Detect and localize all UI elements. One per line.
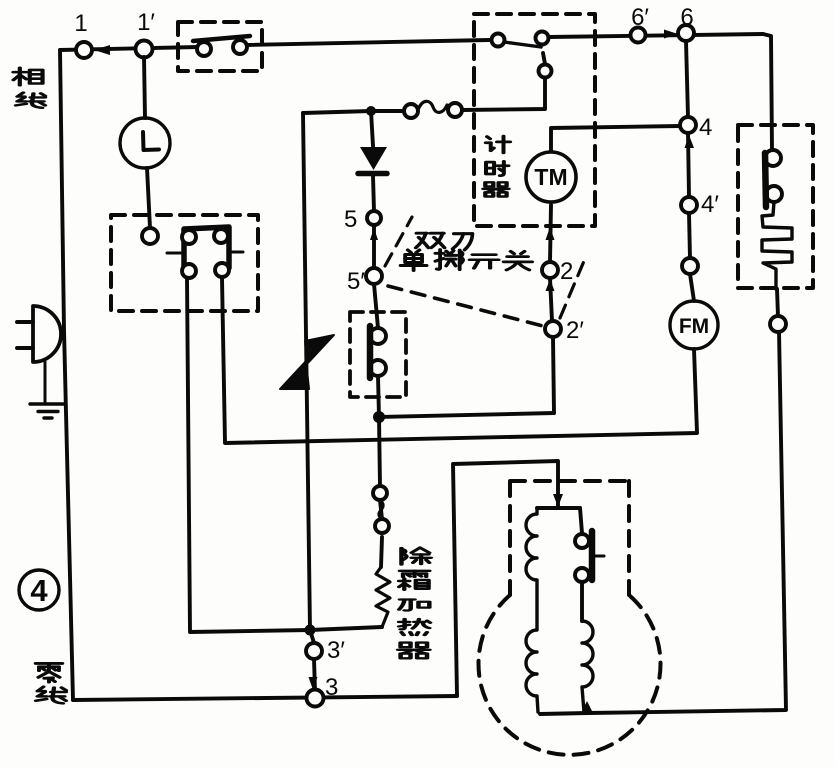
svg-text:2: 2 <box>560 258 573 285</box>
defrost thermostat upper contact <box>765 150 781 166</box>
svg-text:1′: 1′ <box>137 9 155 36</box>
arrow above terminal 3 pointing down <box>309 677 318 690</box>
wire: node above 3' down to terminal 3' <box>310 630 314 643</box>
wire: diode to terminal 5 <box>373 176 374 211</box>
svg-text:6: 6 <box>680 4 693 31</box>
svg-text:3′: 3′ <box>327 637 345 664</box>
text guan of single-throw-switch label <box>504 251 532 270</box>
wire: 5' down into defrost switch <box>374 284 378 328</box>
plug prong upper <box>17 320 33 324</box>
thermostat bridge element <box>184 227 229 269</box>
start relay contact upper <box>575 534 589 548</box>
timer switch contact right <box>536 32 549 45</box>
defrost switch dashed box <box>350 312 406 397</box>
thermostat terminal top-left <box>182 230 196 244</box>
ground symbol <box>30 404 64 418</box>
svg-text:TM: TM <box>534 164 567 190</box>
terminal 1' <box>136 41 153 58</box>
text ji of timer label <box>486 136 510 153</box>
wire: terminal 4 down to 4' <box>688 133 689 197</box>
junction arrow at compressor bottom <box>581 701 593 713</box>
thermal fuse square zigzag <box>762 202 792 289</box>
wire: fuse line from left corner, down the long vertical to node at 3' <box>303 113 310 630</box>
wire: top-right corner down into defrost-thermostat box <box>763 34 772 150</box>
wire: 2 up to TM bottom lead <box>550 205 551 262</box>
text shuang of defrost-heater label <box>399 571 429 590</box>
figure number circled 4 <box>19 570 59 610</box>
terminal 2' <box>545 321 561 337</box>
door switch S1 dashed box <box>178 22 262 71</box>
door switch contact right <box>233 40 247 54</box>
wire: 1' down to lamp <box>144 57 145 118</box>
terminal 6 <box>678 25 694 41</box>
node: junction dot above terminal 3' <box>305 625 316 636</box>
node: junction dot on fuse line at diode branch <box>366 106 376 116</box>
actuation flag lower triangle on vertical wire <box>280 361 309 389</box>
start relay stub <box>592 555 604 558</box>
thermostat box dashed <box>111 215 258 311</box>
node: junction dot at defrost switch output <box>373 411 385 423</box>
text qi of defrost-heater label <box>398 643 429 659</box>
wire: 2' riser <box>553 337 554 413</box>
wire: stub above timer lower contact <box>543 53 545 64</box>
text qi of timer label <box>483 182 508 196</box>
wire: compressor internal tee <box>537 500 580 508</box>
wire: junction node horizontal to 2' riser <box>379 413 554 417</box>
fuse FU right terminal <box>448 103 462 117</box>
svg-text:5: 5 <box>344 206 357 233</box>
wire: start-switch to start winding <box>580 582 584 621</box>
timer box dashed <box>474 14 595 226</box>
wire: from timer switch to terminals 6' and 6 and top-right corner <box>549 34 763 37</box>
door switch blade <box>193 36 250 41</box>
text shuang of double-pole label <box>416 233 445 248</box>
compressor start winding (right coil) <box>582 621 593 712</box>
arrow below terminal 2 pointing up <box>546 279 555 291</box>
wire: fuse right side to timer lower contact <box>462 78 545 110</box>
timer switch contact left <box>492 34 505 47</box>
wire: defrost heater bottom down and left to node at 3' <box>310 627 382 630</box>
wire: terminal 6 down to terminal 4 <box>686 41 688 117</box>
defrost switch bar <box>367 326 374 378</box>
right riser terminal <box>770 316 786 332</box>
heater connector lower terminal <box>375 519 389 533</box>
fuse FU left terminal <box>404 104 418 118</box>
thermostat terminal bottom-right <box>215 263 229 277</box>
wire: junction node down to heater connector <box>379 417 380 486</box>
text ling of neutral-line label <box>36 663 63 682</box>
thermostat terminal bottom-left <box>182 264 196 278</box>
timer switch blade <box>504 42 541 47</box>
wire: terminal 5 to 5' <box>372 225 376 268</box>
wire: phase line top, from left corner through terminals 1 and 1' to door-switch box <box>60 47 198 50</box>
thermostat tick left <box>167 252 181 255</box>
fuse FU wavy element <box>418 101 447 112</box>
actuation flag upper triangle on vertical wire <box>305 335 334 364</box>
text xian (line) of phase-line label <box>16 93 45 108</box>
wire: terminal 4' down to lower terminal <box>689 213 690 258</box>
arrow below timer box pointing up at TM <box>546 227 555 240</box>
plug P1 body <box>33 306 61 362</box>
svg-text:2′: 2′ <box>566 317 584 344</box>
label leader dash from 2' up-right <box>560 261 584 318</box>
arrow below terminal 5 pointing up <box>370 228 378 240</box>
thermostat feed terminal <box>142 228 158 244</box>
thermostat tick right <box>229 251 243 254</box>
lamp L letter <box>143 132 159 150</box>
wire: neutral corner up and over to compressor feed <box>453 461 558 696</box>
wire: compressor bottom bar to junction and right to right-side riser <box>540 331 786 714</box>
terminal 5' <box>366 268 382 284</box>
fan motor FM circle <box>670 301 718 349</box>
defrost thermostat dashed box right <box>738 125 813 288</box>
terminal 1 <box>76 42 92 58</box>
heater connector upper terminal <box>373 486 387 500</box>
label leader dash from 5' up-right <box>385 217 412 266</box>
text xiang (phase) of phase-line label <box>13 68 42 86</box>
wire: lower connector to defrost heater resistor <box>381 537 382 567</box>
terminal 2 <box>542 262 558 278</box>
text dan of single-throw-switch label <box>401 250 427 271</box>
diode VD anode triangle <box>360 147 387 170</box>
defrost switch upper contact <box>370 328 386 344</box>
svg-text:6′: 6′ <box>631 4 649 31</box>
terminal 6' <box>631 28 646 43</box>
defrost thermostat bar <box>765 153 766 207</box>
text kai of single-throw-switch label <box>470 255 499 269</box>
terminal 3' <box>306 643 322 659</box>
wire: left vertical phase wire down to bottom-left corner <box>60 50 73 700</box>
wire: bottom neutral wire from left corner through terminal 3 to corner below compressor feed <box>73 696 457 700</box>
terminal 4 <box>680 117 696 133</box>
start relay bar <box>589 531 596 580</box>
text zhi of single-throw-switch label <box>435 250 463 270</box>
svg-text:4: 4 <box>30 573 48 608</box>
arrow in compressor feed pointing down <box>553 494 563 507</box>
compressor dashed shell (bell) <box>478 481 660 755</box>
door switch contact left <box>197 42 211 56</box>
defrost switch lower contact <box>370 360 386 376</box>
arrow between 6' and 6 pointing right <box>664 30 678 39</box>
wire: 3' down to terminal 3 on neutral <box>314 659 315 691</box>
thermostat terminal top-right <box>214 229 228 243</box>
arrow on wire between 1 and 1' pointing left <box>94 45 110 55</box>
wire: fuse feed horizontal at top <box>303 111 404 113</box>
wire: defrost switch lower contact down to junction node <box>378 376 379 417</box>
defrost thermostat lower contact <box>766 186 782 202</box>
terminal: unlabeled circle above FM <box>682 258 698 274</box>
heater connector wavy link <box>379 500 384 519</box>
wire: diode branch from junction down to diode <box>371 111 373 146</box>
svg-text:5′: 5′ <box>347 268 365 295</box>
wire: lower terminal down to fan motor FM <box>690 274 694 301</box>
wire: between heater connector terminals <box>380 500 382 519</box>
diode VD cathode bar <box>358 171 387 177</box>
text shi of timer label <box>486 161 508 175</box>
svg-text:1: 1 <box>74 10 87 37</box>
wire: 2' to 2 <box>550 278 552 321</box>
start relay contact lower <box>575 568 589 582</box>
terminal 3 <box>307 690 324 707</box>
wire: FM bottom lead down, left across to thermostat right terminal <box>222 278 697 443</box>
arrow below terminal 4 pointing up <box>685 135 695 148</box>
wire: right riser into defrost thermostat box bottom <box>777 289 778 316</box>
label leader dash from 5' to 2' <box>388 286 543 326</box>
wire: from door switch to timer switch contact <box>247 40 489 45</box>
svg-text:4′: 4′ <box>701 191 719 218</box>
wire: start relay upper lead <box>580 508 582 533</box>
lamp L <box>120 118 170 168</box>
wire: thermostat left terminal down then right to node at 3' <box>187 279 310 632</box>
terminal 5 <box>367 211 381 225</box>
text chu of defrost-heater label <box>401 548 430 565</box>
text dao of double-pole label <box>453 234 473 250</box>
wire: TM motor top lead over to terminal 4 <box>551 126 680 151</box>
defrost heater resistor zigzag <box>376 567 390 627</box>
timer lower contact <box>539 65 552 78</box>
wire: lamp down to thermostat box terminal <box>147 168 150 228</box>
plug prong lower <box>17 346 33 350</box>
svg-text:FM: FM <box>679 315 709 338</box>
text xian of neutral-line label <box>36 687 66 704</box>
terminal 4' <box>681 197 697 213</box>
text re of defrost-heater label <box>399 619 430 635</box>
ground stem <box>44 362 47 403</box>
timer motor TM circle <box>526 152 576 202</box>
svg-text:3: 3 <box>325 674 338 701</box>
compressor run winding (left coil) <box>526 508 538 712</box>
svg-text:4: 4 <box>699 114 712 141</box>
text jia of defrost-heater label <box>399 599 429 610</box>
